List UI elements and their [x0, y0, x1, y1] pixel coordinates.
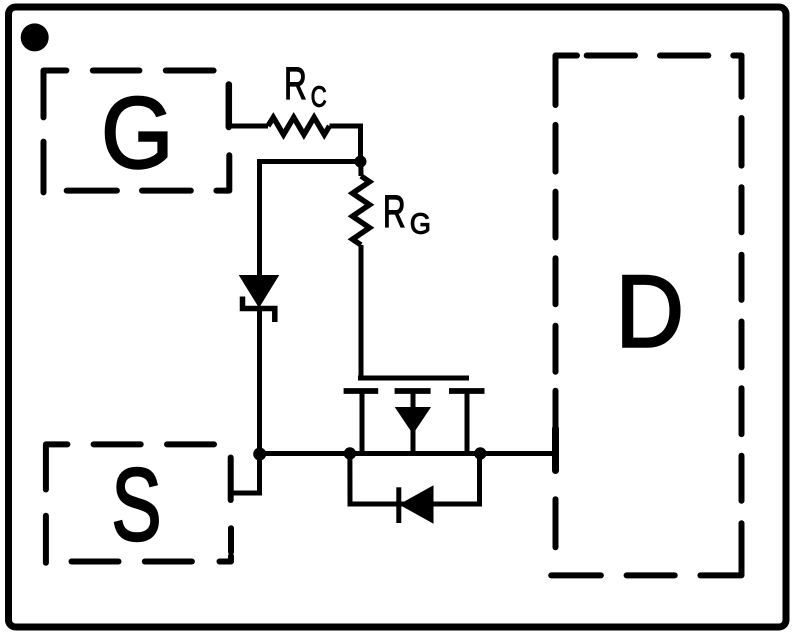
wire RG to gate — [359, 245, 364, 381]
mosfet Q1 channel bar left — [344, 388, 379, 394]
source pad box S — [46, 444, 231, 562]
mosfet Q1 channel bar right — [449, 388, 485, 394]
body diode D1 triangle — [401, 487, 433, 522]
wire zener to source node — [257, 306, 262, 454]
mosfet Q1 body stub — [411, 391, 416, 454]
mosfet Q1 body arrow — [397, 408, 430, 432]
resistor RC — [268, 117, 330, 134]
svg-text:D: D — [616, 254, 685, 368]
drain pad box D — [551, 56, 741, 576]
wire body-diode loop — [350, 454, 480, 505]
svg-text:C: C — [311, 82, 327, 114]
label RC — [284, 60, 327, 114]
resistor RG — [353, 176, 370, 245]
body diode D1 cathode bar — [396, 487, 401, 523]
wire junction to zener branch — [260, 162, 361, 277]
wire RC to junction — [330, 126, 361, 162]
node body-diode left junction — [344, 447, 356, 459]
S pad lead bar — [228, 458, 234, 501]
wire G pad to RC — [229, 124, 268, 129]
svg-text:R: R — [284, 60, 307, 110]
wire junction to RG — [358, 162, 363, 177]
node source junction — [253, 448, 266, 461]
gate pad box G — [44, 71, 230, 193]
svg-text:G: G — [101, 76, 173, 189]
label RG — [383, 188, 431, 240]
mosfet Q1 gate plate — [358, 376, 469, 381]
svg-text:G: G — [410, 208, 431, 240]
zener diode ZD triangle — [241, 276, 278, 306]
svg-text:S: S — [111, 447, 161, 562]
svg-text:R: R — [383, 188, 406, 238]
mosfet Q1 source stub — [360, 391, 365, 454]
mosfet Q1 drain stub — [465, 391, 470, 454]
wire source node to S pad — [231, 454, 260, 493]
mosfet Q1 channel bar middle — [395, 388, 431, 394]
G pad lead bar — [226, 85, 233, 128]
main source-drain wire — [260, 451, 553, 456]
node junction RC/RG — [355, 156, 367, 168]
node body-diode right junction — [474, 447, 486, 459]
pin-1 dot — [21, 23, 49, 51]
zener diode ZD cathode bar — [243, 297, 275, 323]
D pad lead bar — [552, 429, 559, 471]
